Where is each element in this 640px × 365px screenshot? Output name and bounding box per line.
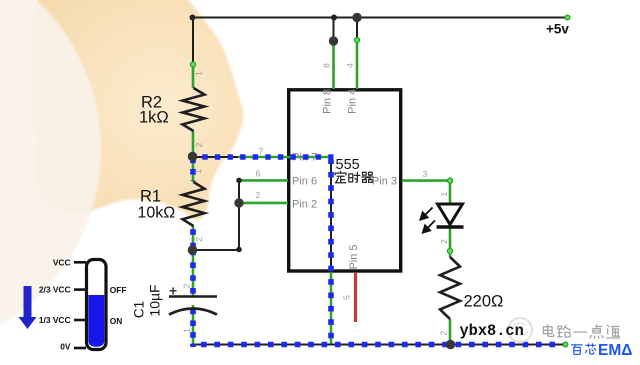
node: bottom rail junction at 220ohm (446, 340, 456, 350)
capacitor C1 top plate (169, 295, 217, 298)
LED D1 cathode bar (437, 225, 464, 228)
svg-text:VCC: VCC (53, 258, 71, 268)
wire: cap bottom green (192, 305, 195, 345)
wire: +5V top rail (193, 17, 568, 19)
wire: pin6 green (239, 179, 288, 182)
svg-text:1/3 VCC: 1/3 VCC (39, 315, 71, 325)
svg-text:2: 2 (256, 190, 261, 200)
wire: pin5 red stub (354, 273, 357, 322)
svg-text:1: 1 (181, 328, 191, 333)
node: LED-resistor green endpoint (447, 248, 452, 253)
wire highlight: junction to pin7 horizontal dashes (202, 154, 333, 160)
svg-text:555: 555 (336, 157, 360, 173)
svg-text:0V: 0V (60, 342, 71, 352)
wire: R2 top green segment (192, 64, 195, 88)
wire: black horizontal to cap node (192, 249, 239, 251)
LED D1 triangle (438, 204, 463, 225)
svg-text:Pin 6: Pin 6 (292, 176, 317, 188)
node: pin2 junction (234, 198, 243, 207)
svg-text:+: + (169, 283, 177, 299)
svg-text:+5v: +5v (546, 22, 569, 37)
wire highlight: left column upper stub (190, 158, 196, 182)
wire: LED anode green (449, 181, 452, 204)
wire: bottom ground rail (192, 344, 566, 346)
node: pin4 green endpoint (354, 37, 359, 42)
wire: pin2 green (239, 202, 288, 205)
svg-text:1: 1 (439, 192, 449, 197)
node: pin8 mid junction (329, 36, 338, 45)
LED D1 emission arrows (420, 208, 435, 233)
watermark CJK bai-xin (BaiXin) blue (572, 345, 583, 354)
svg-text:5: 5 (342, 295, 352, 300)
svg-text:Pin 8: Pin 8 (322, 89, 334, 114)
svg-text:ybx8.cn: ybx8.cn (460, 322, 524, 340)
watermark circle logo (508, 318, 532, 342)
node: +5v green endpoint (565, 15, 570, 20)
wire: selected route vertical through IC (330, 157, 332, 273)
svg-text:3: 3 (423, 169, 428, 179)
wire: pin7 horizontal green part (under dashes) (238, 156, 331, 159)
svg-text:2: 2 (181, 283, 191, 288)
svg-text:10µF: 10µF (147, 284, 163, 316)
resistor R2 zigzag (183, 88, 205, 131)
node: pin8 top dot (331, 15, 337, 21)
svg-text:EMΔ: EMΔ (598, 342, 632, 359)
wire: pin8 black drop (333, 17, 335, 42)
svg-text:1: 1 (194, 71, 204, 76)
svg-text:Pin 2: Pin 2 (292, 199, 317, 211)
watermark CJK dian-lu-yi-dian-tong (circuit site name) (543, 325, 553, 336)
meter tick VCC (74, 261, 86, 264)
svg-text:2: 2 (439, 239, 449, 244)
wire: pin7 horizontal black part (under dashes) (193, 156, 238, 158)
wire: pin8 green drop (332, 41, 335, 89)
wire highlight: vertical through IC dashes (328, 160, 334, 345)
wire: R2 top black segment (192, 17, 194, 65)
wire: selected route vertical below IC green (330, 272, 333, 345)
wire: R1 top green (192, 157, 195, 182)
svg-text:7: 7 (259, 146, 264, 156)
svg-text:4: 4 (345, 63, 355, 68)
svg-text:ON: ON (110, 316, 123, 326)
wire: pin4 green drop (356, 40, 359, 89)
node: cap top junction (188, 245, 198, 255)
svg-text:Pin 3: Pin 3 (372, 176, 397, 188)
node: pin6 wire end (236, 178, 242, 184)
svg-text:2: 2 (194, 237, 204, 242)
capacitor C1 curved bottom plate (169, 309, 217, 315)
svg-text:2: 2 (194, 142, 204, 147)
node: R1/R2/pin7 junction (188, 152, 198, 162)
meter body tube (87, 260, 107, 350)
node: joiner wire end (236, 247, 242, 253)
meter blue level fill (88, 295, 104, 347)
wire: R1 bottom green (192, 226, 195, 251)
wire: pin3 green (402, 179, 450, 182)
resistor R3 220ohm zigzag (440, 257, 460, 319)
node: pin3 corner green endpoint (447, 178, 452, 183)
wire: pin4 black drop (356, 17, 358, 41)
wire: R2 bottom green segment (192, 131, 195, 158)
meter: blue down arrow (19, 286, 37, 329)
wire highlight: left column mid upper (190, 229, 196, 249)
svg-text:Pin 5: Pin 5 (348, 244, 360, 269)
meter tick 2/3 (74, 288, 86, 291)
svg-text:Pin 4: Pin 4 (347, 89, 359, 114)
svg-text:R1: R1 (140, 188, 161, 206)
svg-text:1: 1 (193, 169, 203, 174)
svg-text:2/3 VCC: 2/3 VCC (39, 285, 71, 295)
node: pin4 top junction (352, 13, 361, 22)
node: bottom rail right green endpoint (563, 342, 568, 347)
node: top-left corner dot (190, 15, 196, 21)
svg-text:1kΩ: 1kΩ (139, 109, 169, 127)
svg-text:2: 2 (439, 330, 449, 335)
wire: cap top green (192, 250, 195, 296)
svg-text:C1: C1 (132, 301, 147, 318)
meter tick 1/3 (74, 319, 86, 322)
svg-text:6: 6 (256, 169, 261, 179)
meter tick 0V (74, 347, 86, 350)
wire: 220 ohm bottom green (449, 319, 452, 345)
svg-text:220Ω: 220Ω (464, 293, 504, 311)
wire: LED cathode to resistor green (449, 227, 452, 257)
svg-text:10kΩ: 10kΩ (138, 205, 176, 222)
svg-text:OFF: OFF (110, 285, 127, 295)
wire highlight: left column mid lower (190, 250, 196, 295)
IC U1 555 timer body (289, 90, 401, 271)
wire highlight: bottom rail dashes (201, 342, 563, 348)
node: R2 green endpoint (190, 62, 195, 67)
wire highlight: left column lower (190, 309, 196, 347)
IC U1 name CJK ding-shi-qi (timer) (335, 171, 346, 182)
wire: black vertical pin6/pin2 join (238, 180, 240, 250)
svg-text:8: 8 (322, 63, 332, 68)
resistor R1 zigzag (183, 182, 205, 226)
